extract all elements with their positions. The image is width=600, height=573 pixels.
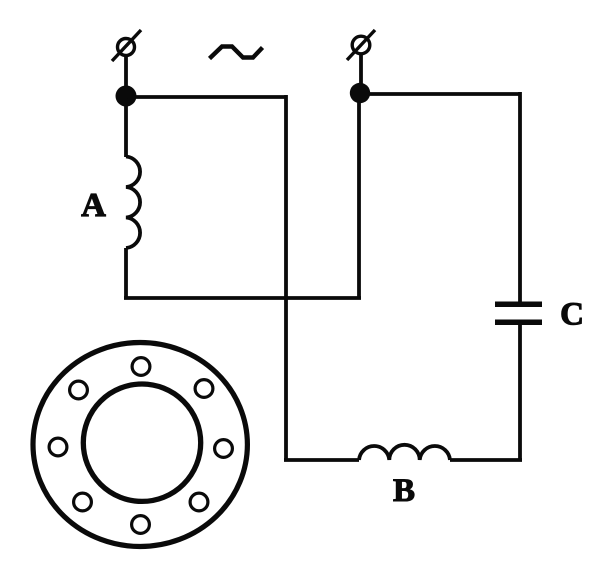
wire bottom right horizontal to inductor B xyxy=(450,458,522,462)
svg-text:A: A xyxy=(81,187,106,224)
wire capacitor down to bottom right corner xyxy=(518,325,522,460)
wire bottom left horizontal from crossover branch to inductor B xyxy=(284,458,359,462)
wire T2 down to node 2 xyxy=(359,54,363,90)
wire node1 top horizontal to crossover branch xyxy=(126,95,286,99)
wire inductor A down to corner xyxy=(124,248,128,298)
capacitor C plates xyxy=(495,302,542,326)
svg-text:B: B xyxy=(393,473,415,509)
terminal T1 (phase input, circle with slash) xyxy=(112,30,141,61)
motor stator flange outer ring xyxy=(33,343,247,547)
junction dot node 1 xyxy=(116,86,137,107)
motor stator flange inner ring xyxy=(83,384,200,501)
inductor B (3-turn coil, bumps up) xyxy=(359,445,450,460)
wire bottom of left loop horizontal y=298 xyxy=(124,296,361,300)
svg-text:C: C xyxy=(560,297,584,333)
wire vertical x=359 up to node 2 xyxy=(357,93,361,298)
wire T1 down to node 1 xyxy=(124,56,128,92)
wire long vertical branch x=286 from top to bottom loop xyxy=(284,95,288,460)
AC source symbol (~) xyxy=(210,47,263,59)
terminal T2 (phase input, circle with slash) xyxy=(347,30,375,60)
wire node2 top horizontal to capacitor branch xyxy=(360,92,521,96)
wire vertical x=520 down to capacitor xyxy=(518,92,522,302)
wire node1 down to inductor A xyxy=(124,96,128,157)
motor flange bolt holes (8) xyxy=(49,358,232,534)
junction dot node 2 xyxy=(350,83,370,103)
inductor A (3-turn coil, bumps right) xyxy=(126,157,140,249)
